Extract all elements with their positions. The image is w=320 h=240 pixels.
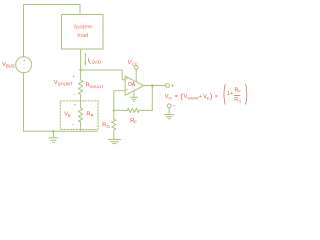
- dashed box (error model): [60, 101, 98, 130]
- output terminal - circle: [167, 104, 171, 108]
- svg-text:load: load: [77, 33, 88, 39]
- ground 1 (rail): [49, 131, 58, 142]
- svg-text:+: +: [230, 91, 233, 97]
- svg-text:VE: VE: [64, 111, 71, 118]
- resistor R_SHUNT: [79, 70, 83, 108]
- ground 2 (below R_G): [108, 140, 120, 144]
- svg-text:RG: RG: [102, 123, 110, 130]
- ground 3 (below - terminal): [164, 108, 174, 119]
- svg-text:RF: RF: [130, 118, 137, 125]
- ground rail wire: [24, 130, 98, 132]
- ground 4 (op-amp) stem and bars: [130, 91, 137, 101]
- svg-text:+: +: [74, 103, 77, 108]
- svg-text:−: −: [173, 103, 176, 109]
- svg-text:−: −: [73, 92, 76, 97]
- wire feedback up to output: [151, 86, 153, 111]
- svg-text:RG: RG: [234, 97, 241, 103]
- wire op-amp - input net: [114, 91, 125, 111]
- wire op-amp output: [144, 85, 166, 87]
- svg-text:+: +: [199, 94, 202, 100]
- svg-text:ILOAD: ILOAD: [88, 58, 101, 65]
- output terminal + circle: [166, 84, 170, 88]
- svg-text:VSHUNT: VSHUNT: [54, 80, 73, 87]
- system load box: [62, 15, 104, 50]
- I_LOAD arrow: [84, 54, 86, 64]
- voltage source V_BUS: [16, 57, 32, 73]
- svg-text:VSHUNT: VSHUNT: [184, 94, 199, 100]
- node output dot: [151, 84, 154, 87]
- resistor R_G: [112, 111, 116, 140]
- svg-text:+: +: [73, 74, 76, 79]
- svg-text:+: +: [23, 58, 26, 63]
- svg-text:VCC: VCC: [128, 60, 139, 67]
- svg-text:−: −: [125, 88, 128, 93]
- svg-text:VBUS: VBUS: [2, 62, 15, 69]
- svg-text:×: ×: [215, 94, 218, 100]
- svg-text:RP: RP: [86, 112, 93, 119]
- node ground rail dot: [52, 130, 55, 133]
- wire V_BUS top to system load box: [24, 5, 81, 57]
- equation big right paren: [246, 84, 247, 104]
- svg-text:System: System: [73, 25, 92, 31]
- resistor R_P (parasitic, in dashed box): [79, 108, 83, 131]
- I_LOAD arrowhead: [84, 62, 86, 66]
- svg-text:+: +: [171, 83, 174, 89]
- svg-text:=: =: [175, 94, 178, 100]
- equation big left paren: [224, 84, 225, 104]
- svg-text:RF: RF: [235, 87, 242, 93]
- svg-text:RSHUNT: RSHUNT: [86, 82, 105, 89]
- wire node A to op-amp + input: [81, 70, 126, 80]
- node A dot: [79, 69, 82, 72]
- svg-text:VO: VO: [165, 94, 172, 100]
- wire box bottom to node A: [80, 49, 82, 70]
- op-amp OA triangle: [125, 76, 144, 95]
- svg-text:): ): [210, 92, 213, 101]
- svg-text:−: −: [72, 121, 75, 126]
- resistor R_F: [114, 108, 153, 112]
- Vcc terminal circle: [134, 66, 138, 70]
- equation fraction bar: [234, 95, 240, 97]
- wire V_BUS bottom to ground rail: [23, 73, 25, 131]
- node - input dot: [113, 109, 116, 112]
- svg-text:OA: OA: [128, 82, 136, 88]
- svg-text:−: −: [23, 66, 26, 71]
- wire Vcc stem: [135, 69, 137, 81]
